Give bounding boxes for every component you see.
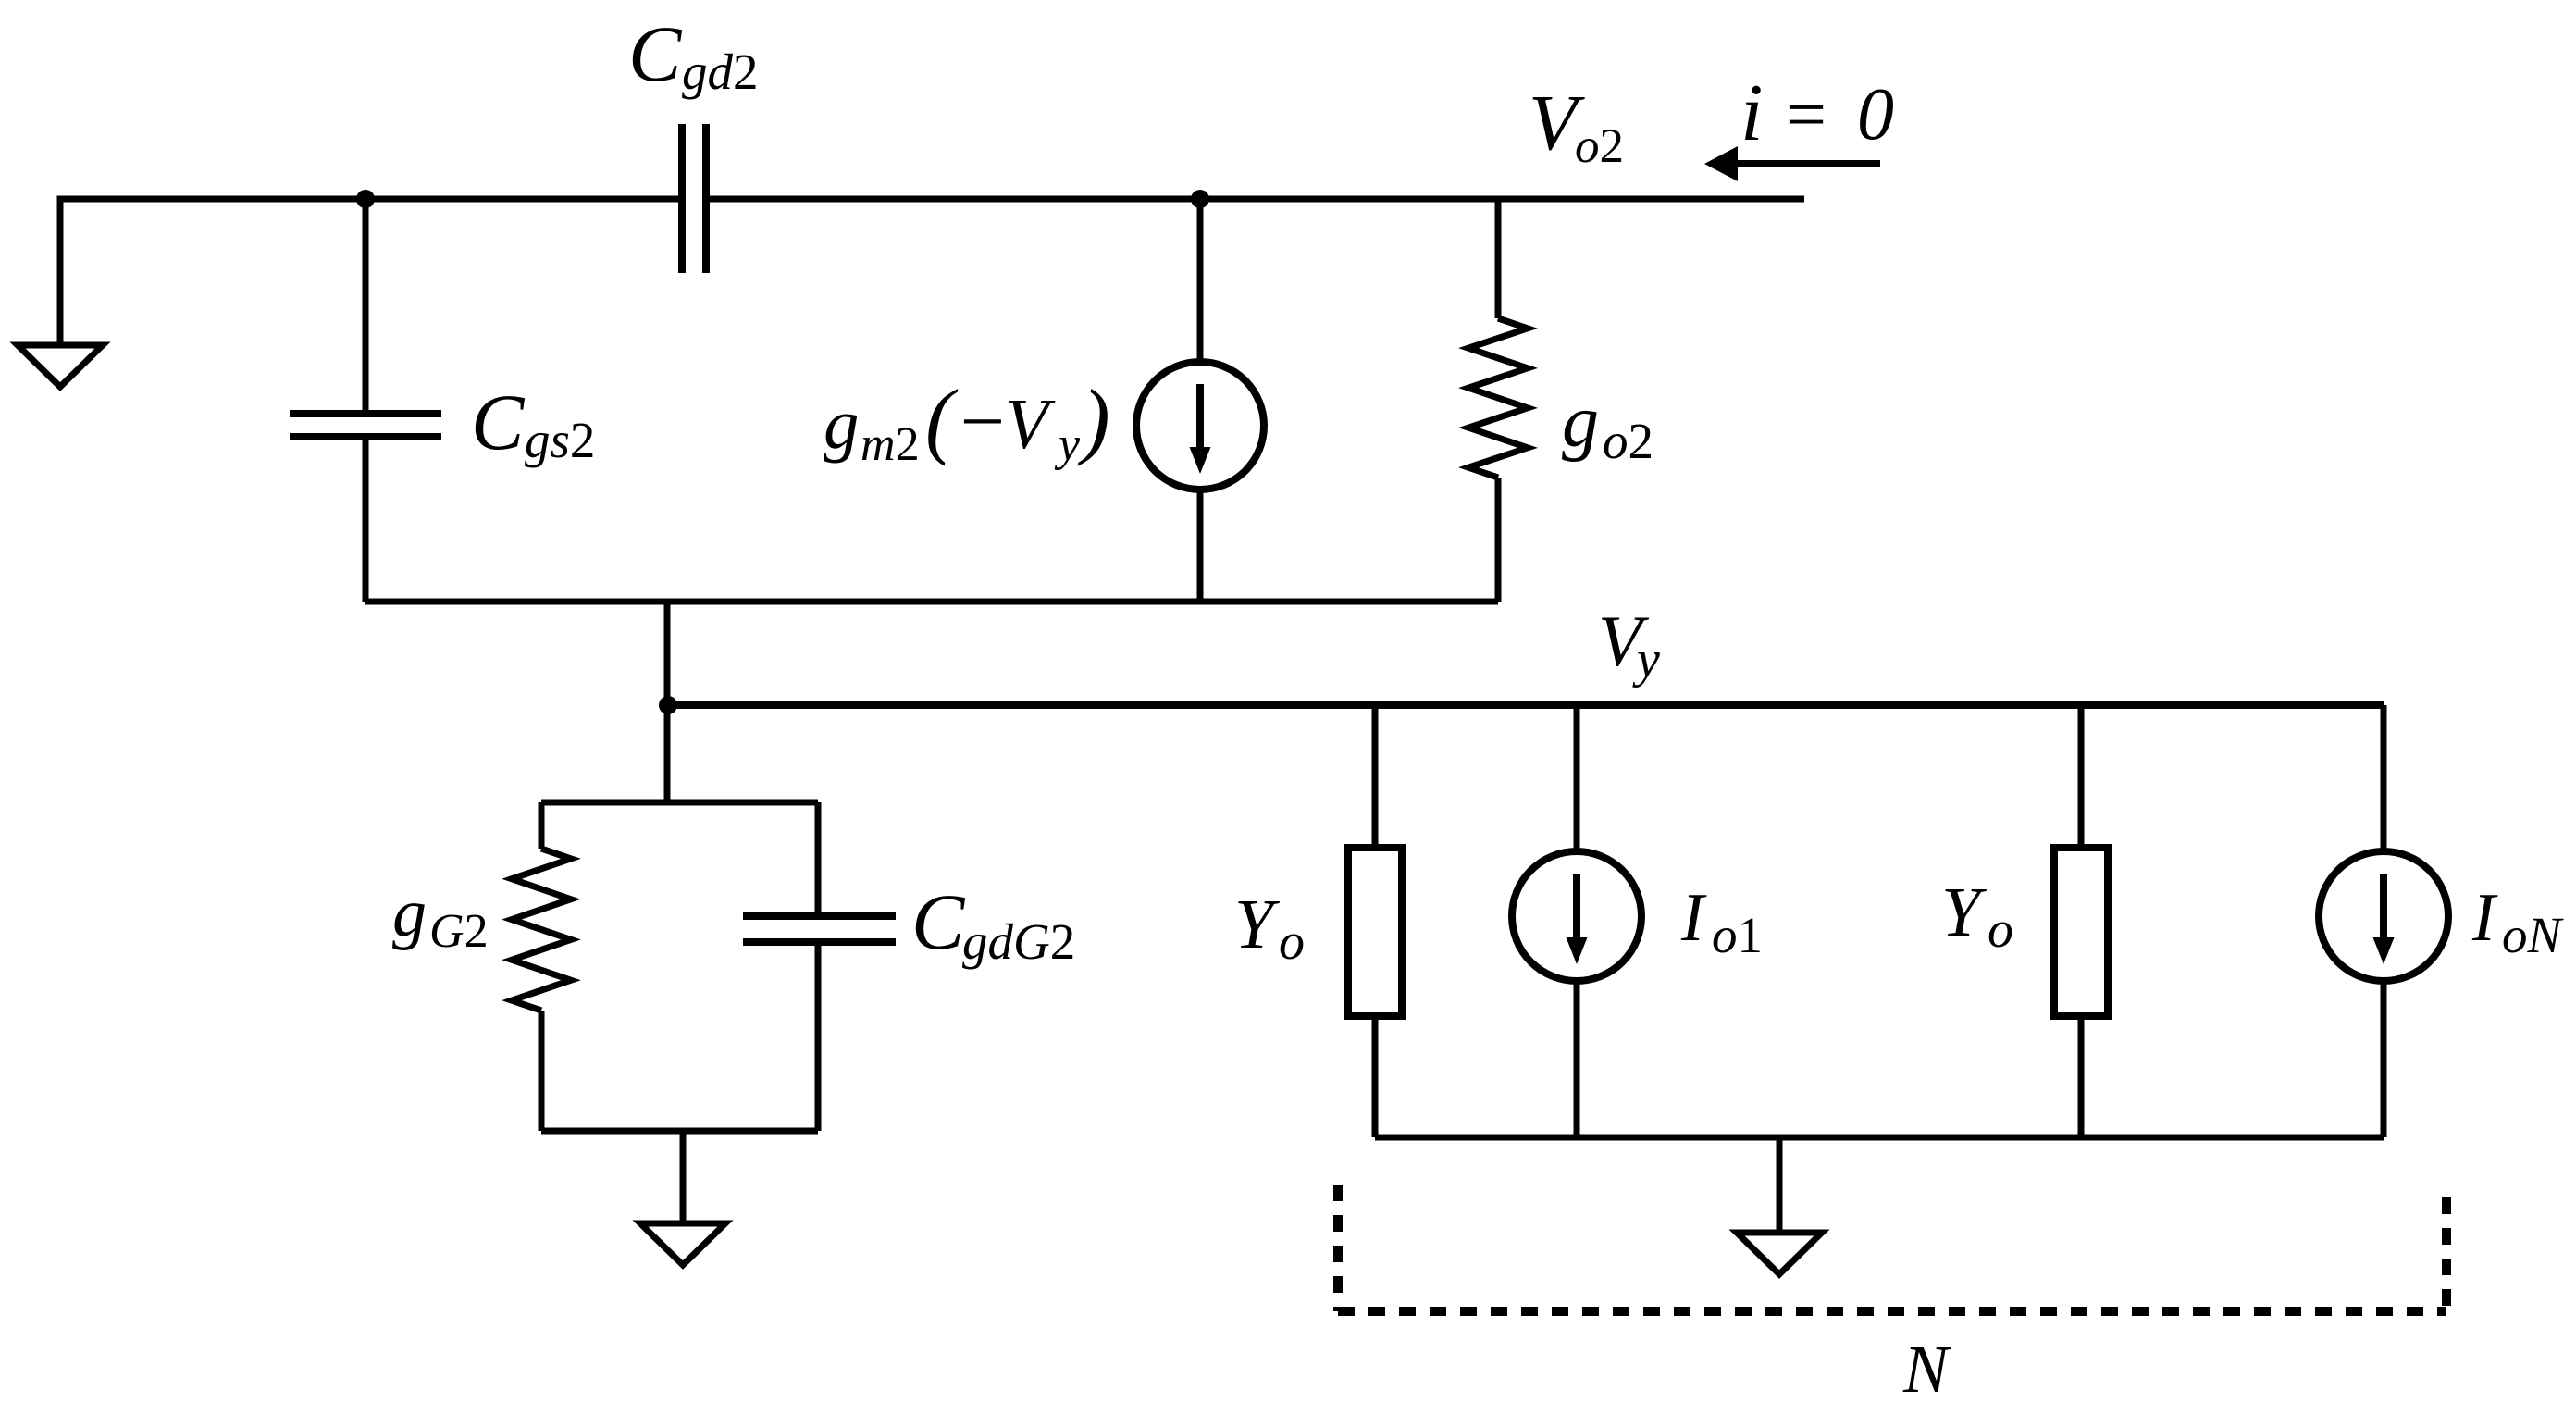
svg-text:V: V xyxy=(1005,384,1056,464)
wire Vy rail xyxy=(668,701,2384,709)
arrow inside IoN source xyxy=(2380,874,2387,940)
node B junction dot xyxy=(1191,190,1209,208)
arrow for i=0 current xyxy=(1734,160,1880,167)
wire gm2 branch lower xyxy=(1197,490,1204,602)
svg-text:g: g xyxy=(392,875,427,951)
svg-text:o2: o2 xyxy=(1575,119,1624,173)
wire Vo2 net top-right segment xyxy=(706,196,1804,203)
wire Cgs2 branch upper xyxy=(363,199,369,414)
wire bottom rail of cascode section xyxy=(365,599,1498,605)
wire gG2 box bottom xyxy=(541,1128,818,1135)
wire gm2 branch upper xyxy=(1197,199,1204,362)
svg-text:i: i xyxy=(1740,68,1763,158)
svg-text:y: y xyxy=(1054,418,1081,471)
wire Cgs2 branch lower xyxy=(363,437,369,602)
wire Vo2 net top-left segment xyxy=(60,199,682,345)
node A junction dot xyxy=(356,190,375,208)
dashed boundary of network N xyxy=(1338,1185,2446,1311)
svg-text:o1: o1 xyxy=(1712,907,1763,963)
svg-text:C: C xyxy=(911,877,966,966)
wire stub node Vy xyxy=(664,602,671,802)
ground below gG2 box xyxy=(640,1223,725,1265)
svg-text:=: = xyxy=(1781,74,1830,155)
svg-text:gs2: gs2 xyxy=(525,412,595,468)
node Vy junction dot xyxy=(659,696,677,714)
wire bottom rail of N network xyxy=(1375,1135,2384,1141)
arrow inside Io1 source xyxy=(1573,874,1580,940)
svg-text:N: N xyxy=(1902,1332,1952,1407)
svg-text:o2: o2 xyxy=(1603,413,1653,469)
admittance Yo right branch xyxy=(2078,705,2085,848)
svg-text:−: − xyxy=(955,377,1009,465)
svg-text:o: o xyxy=(1988,901,2013,959)
resistor go2 xyxy=(1495,199,1502,318)
svg-text:0: 0 xyxy=(1857,74,1894,155)
svg-text:(: ( xyxy=(925,372,959,466)
svg-text:I: I xyxy=(2471,880,2498,956)
arrow inside gm2 source xyxy=(1196,384,1204,450)
current source IoN branch xyxy=(2381,705,2387,851)
ground below N network xyxy=(1737,1233,1822,1274)
svg-text:G2: G2 xyxy=(429,905,489,958)
svg-text:oN: oN xyxy=(2502,907,2565,963)
capacitor Cgd2 xyxy=(682,124,706,273)
svg-text:m2: m2 xyxy=(861,418,920,471)
svg-text:o: o xyxy=(1279,913,1305,971)
admittance Yo left branch xyxy=(1372,705,1379,848)
wire gG2 box top xyxy=(541,800,818,806)
capacitor Cgs2 xyxy=(290,414,441,437)
svg-text:g: g xyxy=(1562,381,1599,463)
svg-text:gdG2: gdG2 xyxy=(962,913,1075,970)
svg-text:g: g xyxy=(824,384,860,464)
svg-text:C: C xyxy=(471,378,526,466)
wire gG2 ground stub xyxy=(680,1131,687,1223)
current source Io1 branch xyxy=(1574,705,1580,851)
svg-text:): ) xyxy=(1077,372,1110,466)
current source gm2 xyxy=(1136,362,1264,490)
wire N ground stub xyxy=(1777,1137,1783,1233)
capacitor CgdG2 xyxy=(815,802,822,916)
resistor gG2 xyxy=(539,802,545,849)
svg-text:gd2: gd2 xyxy=(682,43,759,100)
svg-text:I: I xyxy=(1680,880,1707,956)
ground top-left xyxy=(18,345,103,387)
svg-text:y: y xyxy=(1632,631,1660,688)
svg-text:C: C xyxy=(628,9,683,98)
